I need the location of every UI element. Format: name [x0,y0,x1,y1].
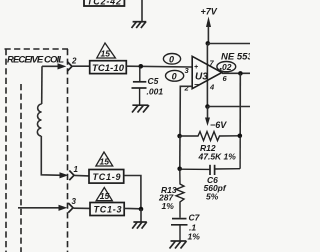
ground (top, near TC2-42) [132,22,147,28]
svg-text:2: 2 [71,57,77,66]
svg-text:0: 0 [169,54,174,64]
wire coil vertical [41,66,43,104]
note triangle 15 above TC1-9 [96,152,113,167]
wire TC1-9 to ground bus [124,176,141,210]
junction node output [238,71,243,76]
wire connector to TC1-9 [75,174,90,177]
resistor R13 [176,169,184,218]
svg-text:0: 0 [172,71,177,81]
wire down from top edge [141,0,143,21]
ground (below C5) [132,105,149,112]
power +7V arrow [206,17,211,28]
wire to connector pin 3 [18,207,63,209]
connector pin 1 (arrow into jack) [60,172,69,178]
ground (below C7) [170,241,187,249]
wire TC1-3 to ground bus [124,207,141,209]
transformer TC1-3 [90,203,124,216]
svg-text:15: 15 [101,49,111,59]
power -6V arrow [207,107,209,119]
wire down to ground [140,209,142,222]
junction node ground bus [139,207,144,212]
junction node V- rail [205,104,210,109]
ground (TC1-9 / TC1-3) [132,222,147,229]
svg-text:−6V: −6V [210,120,227,130]
test point .02 [217,62,236,72]
capacitor C6 [180,136,241,175]
svg-text:.001: .001 [147,87,164,97]
svg-text:U3: U3 [195,72,208,83]
transformer TC2-42 (cut at top) [84,0,124,6]
connector pin 3 (arrow into jack) [59,205,68,211]
svg-text:TC1-3: TC1-3 [94,205,122,215]
svg-text:02: 02 [222,62,232,72]
svg-text:15: 15 [100,191,110,201]
svg-text:15: 15 [100,157,110,167]
transformer TC1-9 [89,170,124,184]
svg-text:1%: 1% [162,201,175,211]
svg-text:4: 4 [209,83,215,92]
junction node at C5 [139,64,144,69]
svg-text:TC1-10: TC1-10 [92,63,125,74]
wire pin 2 to feedback node [180,86,192,136]
svg-text:1%: 1% [188,232,201,242]
svg-text:1: 1 [74,165,79,174]
wire -6V rail to right edge [208,106,251,108]
svg-text:+: + [194,64,198,71]
junction node +7V rail [206,41,211,46]
svg-text:C7: C7 [189,213,201,223]
inductor receive coil winding [37,104,41,136]
junction node R12 right [238,134,243,139]
wire connector to TC1-10 [73,65,90,67]
capacitor C5 [132,66,147,105]
test point 0 (above pin 3 wire) [163,54,180,65]
svg-text:3: 3 [72,197,77,206]
shield box receive coil (dashed enclosure) [5,49,69,252]
capacitor C7 [171,219,188,241]
svg-text:TC2-42: TC2-42 [87,0,121,6]
wire +7V rail to right edge [208,43,250,45]
test point 0 (below pin 3 wire) [166,70,184,81]
note triangle 15 above TC1-10 [97,43,116,59]
svg-text:47.5K 1%: 47.5K 1% [198,152,237,162]
wire TC1-10 to op-amp pin 3 [126,65,192,68]
svg-text:2: 2 [184,84,190,93]
svg-text:TC1-9: TC1-9 [93,172,121,182]
connector pin 2 (arrow into jack) [58,63,67,69]
wire V+ supply to op-amp pin 7 [206,44,208,107]
wire output of op-amp [222,72,250,74]
resistor R12 [180,132,240,141]
junction node R12 left [177,134,182,139]
svg-text:+7V: +7V [201,7,218,17]
svg-text:5%: 5% [206,192,219,202]
wire feedback node down [179,136,181,169]
wire connector to TC1-3 [74,207,91,209]
wire from coil top to connector pin 2 [42,65,63,67]
note triangle 15 above TC1-3 [96,188,112,202]
wire output down to feedback [239,73,241,135]
wire coil bottom to connector pin 1 [41,136,63,175]
op-amp U3 [192,56,222,89]
junction node C6 left [177,167,182,172]
svg-text:RECEIVE COIL: RECEIVE COIL [7,55,64,66]
transformer TC1-10 [90,61,127,74]
svg-text:C5: C5 [148,76,159,86]
